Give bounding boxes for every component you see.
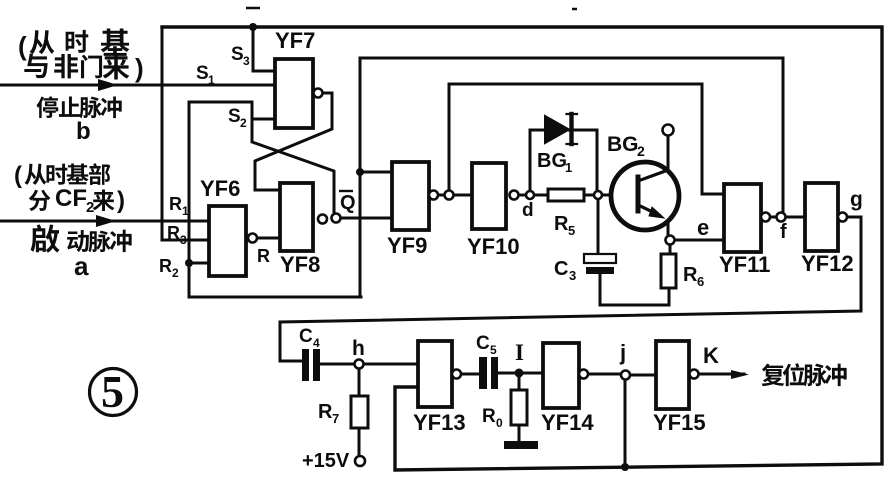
wire feedback node to YF11 upper input <box>449 84 724 194</box>
svg-text:S: S <box>196 63 209 84</box>
svg-text:R: R <box>167 223 180 243</box>
svg-text:BG: BG <box>607 133 639 156</box>
wire S3 drop from top rail <box>253 27 275 71</box>
gate YF7 <box>275 59 313 128</box>
svg-text:YF15: YF15 <box>653 410 706 435</box>
inverter bubble of YF7 <box>314 89 323 98</box>
node Qbar <box>332 214 341 223</box>
svg-text:0: 0 <box>496 416 503 430</box>
transistor BG2 <box>611 162 679 230</box>
gate YF10 <box>472 163 506 229</box>
wire node j to YF15 input <box>630 374 656 377</box>
text line2 yu-fei-men-lai <box>24 53 129 79</box>
capacitor C3 electrolytic <box>584 254 616 274</box>
wire e node down to R6 top <box>669 244 672 254</box>
svg-text:(: ( <box>18 31 27 61</box>
svg-text:YF7: YF7 <box>275 28 315 53</box>
node f <box>777 213 786 222</box>
inverter bubble of YF15 <box>690 370 699 379</box>
wire node j down to bottom rail <box>624 379 627 467</box>
wire S2 cross-coupling from Qbar net <box>189 102 334 218</box>
wire YF14 output to node j <box>588 373 621 376</box>
svg-text:C: C <box>476 333 490 354</box>
svg-text:R: R <box>257 246 270 266</box>
wire BG2 collector to terminal <box>667 136 670 170</box>
svg-text:YF11: YF11 <box>719 252 770 277</box>
wire YF7 output cross-coupling to YF8 input <box>255 93 332 190</box>
svg-text:+15V: +15V <box>302 450 350 472</box>
text line1 paren <box>18 31 27 61</box>
svg-text:YF6: YF6 <box>200 176 240 201</box>
inverter bubble of YF11 <box>761 213 770 222</box>
inverter bubble of YF10 <box>510 191 519 200</box>
wire start-pulse a line to R1 <box>0 220 209 223</box>
capacitor C5 <box>479 357 498 389</box>
svg-text:R: R <box>683 264 698 286</box>
svg-text:I: I <box>515 340 524 365</box>
svg-text:h: h <box>352 337 365 360</box>
wire upper feedback from riser to node f <box>360 58 783 213</box>
text line6 lai <box>93 189 115 211</box>
wire YF13 output to C5 <box>461 373 479 376</box>
wire g output down and across to C4 <box>280 217 861 361</box>
junction S3 on top rail <box>249 23 257 31</box>
svg-text:YF10: YF10 <box>467 234 520 259</box>
resistor R7 <box>351 396 368 428</box>
ground symbol <box>504 441 538 449</box>
arrowhead on b line <box>98 79 118 91</box>
node between YF9 and YF10 <box>445 191 454 200</box>
svg-text:(: ( <box>14 162 22 189</box>
speck mark <box>246 7 260 10</box>
resistor R6 <box>661 254 676 288</box>
gate YF13 <box>418 341 452 407</box>
svg-text:R: R <box>482 406 496 427</box>
svg-text:S: S <box>228 106 241 127</box>
svg-text:): ) <box>117 187 125 214</box>
wire BG2 emitter to e node <box>667 221 670 236</box>
gate YF6 <box>209 206 246 276</box>
wire YF9 output to node <box>438 194 472 197</box>
junction node I <box>515 369 524 378</box>
gate YF14 <box>543 343 579 408</box>
junction j on bottom rail <box>621 463 629 471</box>
wire R0 to ground <box>518 425 521 441</box>
wire YF15 output K <box>699 373 744 376</box>
svg-text:3: 3 <box>180 233 187 247</box>
text line6 fen <box>29 190 51 211</box>
wire R2 input stub <box>189 262 209 265</box>
svg-text:5: 5 <box>490 343 497 357</box>
inverter bubble of YF8 <box>318 215 327 224</box>
inverter bubble of YF14 <box>579 370 588 379</box>
wire e node to YF11 lower input <box>674 239 724 242</box>
wire node I down to R0 <box>518 377 521 390</box>
arrowhead reset pulse output <box>731 370 749 379</box>
svg-text:1: 1 <box>182 204 189 218</box>
svg-text:YF13: YF13 <box>413 410 466 435</box>
wire R2/S2 vertical and bottom feedback to Qbar vertical <box>189 102 361 297</box>
wire h down to R7 <box>358 368 361 396</box>
svg-text:2: 2 <box>86 199 94 216</box>
wire Qbar-net vertical riser <box>359 58 362 297</box>
node h <box>355 360 364 369</box>
svg-text:CF: CF <box>55 185 87 212</box>
svg-text:f: f <box>780 221 787 243</box>
svg-text:6: 6 <box>697 274 704 289</box>
svg-text:j: j <box>619 340 626 365</box>
svg-text:g: g <box>850 188 863 211</box>
node after R5 <box>594 191 602 199</box>
wire R5 to BG2 base <box>584 194 635 197</box>
wire C4 to node h to YF13 input <box>320 363 418 366</box>
gate YF11 <box>724 184 761 252</box>
svg-text:b: b <box>76 118 91 145</box>
text start pulse <box>31 224 132 252</box>
svg-text:5: 5 <box>568 223 575 238</box>
terminal +15V <box>355 456 365 466</box>
capacitor C4 <box>302 349 320 381</box>
wire node f to YF12 input <box>786 216 805 219</box>
wire BG1 diode loop <box>530 130 597 195</box>
svg-text:3: 3 <box>569 268 576 283</box>
svg-text:): ) <box>135 53 144 83</box>
svg-text:7: 7 <box>332 411 339 426</box>
gate YF15 <box>656 341 689 409</box>
speck mark 2 <box>572 8 577 11</box>
terminal BG2 collector <box>663 125 674 136</box>
svg-text:2: 2 <box>240 116 247 130</box>
svg-text:C: C <box>554 258 568 280</box>
svg-text:2: 2 <box>637 143 645 159</box>
svg-text:Q: Q <box>340 192 356 214</box>
svg-text:3: 3 <box>243 54 250 68</box>
junction YF9 upper input tap <box>356 168 364 176</box>
wire Qbar line to YF9 lower input <box>341 217 392 220</box>
inverter bubble of YF9 <box>429 191 438 200</box>
gate YF12 <box>805 183 838 251</box>
svg-text:R: R <box>159 256 172 276</box>
wire left drop from top rail to R3 input <box>162 27 209 240</box>
wire C3 bottom to R6 bottom <box>600 274 669 305</box>
svg-text:K: K <box>703 343 719 368</box>
svg-text:1: 1 <box>208 73 215 87</box>
node j <box>621 371 630 380</box>
text line1 cong-shi-ji <box>30 28 130 55</box>
wire YF11 output to node f <box>770 216 777 219</box>
svg-text:YF12: YF12 <box>801 251 854 276</box>
svg-text:YF8: YF8 <box>280 252 320 277</box>
wire C5 to node I to YF14 input <box>498 372 543 375</box>
svg-text:1: 1 <box>565 160 572 175</box>
diode BG1 <box>545 114 577 144</box>
wire YF9 upper input stub <box>360 171 392 174</box>
svg-text:d: d <box>522 200 534 221</box>
arrowhead on a line <box>96 215 116 227</box>
svg-text:R: R <box>169 194 182 214</box>
junction R2 tap <box>185 259 193 267</box>
node d <box>526 191 534 199</box>
svg-text:2: 2 <box>172 266 179 280</box>
svg-text:YF9: YF9 <box>387 233 427 258</box>
inverter bubble of YF6 <box>248 234 257 243</box>
wire YF6 output R to YF8 input <box>257 237 280 240</box>
wire stop-pulse b line to S1 <box>0 84 275 87</box>
svg-text:e: e <box>697 215 709 240</box>
figure number 5 circle <box>90 366 137 417</box>
svg-text:5: 5 <box>101 366 124 417</box>
wire top rail S3/R3/j net <box>162 27 882 470</box>
resistor R0 <box>511 390 527 425</box>
text stop pulse <box>36 96 121 118</box>
resistor R5 <box>548 189 584 201</box>
wire R7 to +15V terminal <box>358 428 361 456</box>
wire node to C3 top plate <box>597 198 600 255</box>
inverter bubble of YF13 <box>452 370 461 379</box>
text reset pulse <box>762 363 847 386</box>
text line5 cong-shi-ji-bu <box>25 163 111 185</box>
svg-text:R: R <box>318 401 333 423</box>
svg-text:BG: BG <box>537 150 567 172</box>
inverter bubble of YF12 <box>838 213 847 222</box>
svg-text:YF14: YF14 <box>541 410 594 435</box>
wire S2 input stub <box>252 118 275 121</box>
svg-text:a: a <box>74 251 89 281</box>
gate YF8 <box>280 183 313 251</box>
svg-text:R: R <box>554 213 569 235</box>
gate YF9 <box>392 162 429 230</box>
svg-text:S: S <box>231 44 244 65</box>
node e <box>666 236 675 245</box>
svg-text:4: 4 <box>313 336 320 350</box>
wire node d to R5 <box>519 194 548 197</box>
svg-text:C: C <box>299 326 313 347</box>
